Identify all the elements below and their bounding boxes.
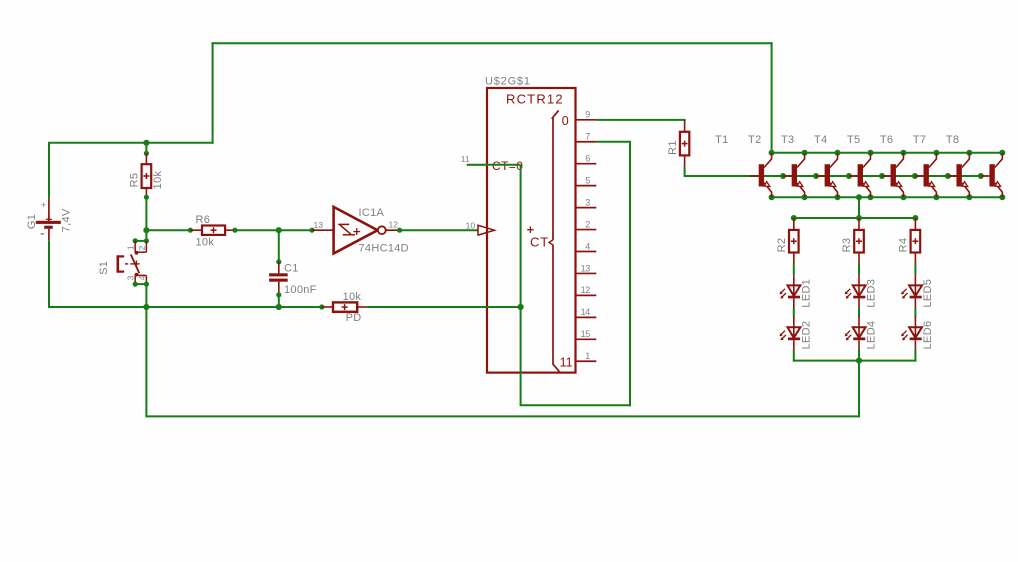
wire R4 to LED5 bbox=[914, 253, 916, 275]
counter reset pin stub bbox=[467, 164, 487, 166]
svg-text:R6: R6 bbox=[196, 214, 211, 226]
resistor PD name PD bbox=[346, 312, 362, 324]
wire collector rail bbox=[772, 152, 1003, 154]
capacitor C1 bbox=[269, 273, 288, 281]
svg-text:4: 4 bbox=[585, 241, 590, 251]
transistor T4 bbox=[849, 153, 871, 198]
svg-text:R2: R2 bbox=[776, 238, 788, 253]
wire PD right stub bbox=[357, 306, 366, 308]
counter bracket label 11 bbox=[560, 356, 573, 370]
counter CT label bbox=[530, 235, 549, 250]
wire pin 9 to R1 bbox=[596, 120, 685, 121]
svg-text:G1: G1 bbox=[26, 214, 38, 229]
resistor R2 name bbox=[776, 238, 788, 253]
wire bottom-left drop bbox=[145, 307, 147, 417]
svg-text:7,4V: 7,4V bbox=[60, 208, 72, 232]
wire inverter output stub bbox=[386, 228, 402, 233]
transistor T5 name bbox=[847, 134, 860, 146]
resistor R4 name bbox=[898, 238, 910, 253]
resistor R3 name bbox=[841, 238, 853, 253]
wire R1 top stub bbox=[684, 120, 686, 132]
LED LED3 name bbox=[866, 279, 878, 308]
svg-text:100nF: 100nF bbox=[284, 284, 317, 296]
resistor R4 bbox=[911, 230, 921, 253]
wire top-right drop to collector rail bbox=[771, 42, 773, 153]
battery G1 plus mark bbox=[41, 200, 47, 211]
transistor T1 name bbox=[715, 134, 728, 146]
svg-text:1: 1 bbox=[125, 245, 135, 250]
junctions collector rail bbox=[769, 150, 1006, 156]
counter reset pin number 11 bbox=[461, 154, 470, 164]
junctions LED feed rail bbox=[791, 215, 919, 221]
junction PD reset net bbox=[518, 304, 524, 310]
counter value RCTR12 bbox=[506, 92, 564, 107]
switch S1 pin number 3 bbox=[125, 275, 135, 280]
wire battery negative to bottom rail bbox=[48, 240, 50, 308]
svg-text:2: 2 bbox=[137, 245, 147, 250]
inverter IC1A name bbox=[359, 207, 385, 219]
svg-text:R1: R1 bbox=[667, 140, 679, 155]
wire R3 to LED3 bbox=[858, 253, 860, 275]
wire LED5 to LED6 bbox=[914, 308, 916, 317]
svg-text:15: 15 bbox=[581, 329, 591, 339]
wire R5 top stub bbox=[144, 143, 149, 164]
inverter IC1A pin number 12 bbox=[389, 220, 399, 230]
wire LED2 to LED return rail bbox=[793, 350, 795, 362]
LED LED5 name bbox=[922, 279, 934, 308]
resistor R4 top stub bbox=[914, 218, 916, 230]
LED LED4 bbox=[845, 316, 866, 350]
wire reset net bottom bbox=[520, 404, 631, 406]
junctions base rail bbox=[780, 173, 984, 179]
counter CT chevron bbox=[549, 239, 554, 245]
LED LED3 bbox=[845, 274, 866, 308]
svg-text:LED2: LED2 bbox=[800, 321, 812, 350]
switch S1 pin number 4 bbox=[137, 275, 147, 280]
LED LED5 bbox=[901, 274, 922, 308]
wire emitter rail to LED feed bbox=[858, 197, 860, 219]
wire R6 to inverter input bbox=[225, 228, 315, 233]
transistor T1 bbox=[750, 153, 772, 198]
resistor R2 top stub bbox=[793, 218, 795, 230]
resistor R6 bbox=[202, 226, 225, 235]
wire PD left stub bbox=[319, 304, 333, 309]
junction C1 tap bbox=[276, 227, 282, 233]
svg-text:11: 11 bbox=[461, 154, 470, 164]
counter U$2G$1 name bbox=[485, 76, 531, 88]
wire LED1 to LED2 bbox=[793, 308, 795, 317]
svg-text:LED5: LED5 bbox=[922, 279, 934, 308]
junction node A bbox=[143, 227, 149, 233]
inverter IC1A hysteresis mark bbox=[338, 224, 355, 234]
svg-text:PD: PD bbox=[346, 312, 362, 324]
switch S1 name bbox=[98, 261, 110, 275]
op-amp IC1A triangle bbox=[334, 207, 378, 254]
resistor R1 name bbox=[667, 140, 679, 155]
counter bracket label 0 bbox=[562, 114, 569, 128]
svg-text:S1: S1 bbox=[98, 261, 110, 275]
svg-text:7: 7 bbox=[585, 132, 590, 142]
transistor T2 bbox=[783, 153, 805, 198]
battery G1 value 7,4V bbox=[60, 208, 72, 232]
svg-text:R4: R4 bbox=[898, 238, 910, 253]
counter clock wedge bbox=[478, 225, 494, 235]
LED LED6 name bbox=[922, 321, 934, 350]
battery G1 plates bbox=[36, 198, 61, 240]
svg-text:C1: C1 bbox=[284, 263, 299, 275]
counter clock pin number 10 bbox=[466, 220, 476, 230]
svg-text:6: 6 bbox=[585, 154, 590, 164]
svg-text:LED6: LED6 bbox=[922, 321, 934, 350]
wire LED6 to LED return rail bbox=[914, 350, 916, 362]
svg-text:10k: 10k bbox=[196, 237, 215, 249]
resistor R6 value 10k bbox=[196, 237, 215, 249]
wire transistor base rail bbox=[750, 175, 981, 177]
svg-text:10k: 10k bbox=[343, 291, 362, 303]
wire emitter rail bbox=[772, 196, 1003, 198]
junctions emitter rail bbox=[769, 194, 1006, 200]
svg-text:5: 5 bbox=[585, 175, 590, 185]
svg-text:0: 0 bbox=[562, 114, 569, 128]
inverter IC1A value 74HC14D bbox=[359, 243, 409, 255]
wire node A to S1 bbox=[145, 230, 147, 241]
LED LED4 name bbox=[866, 321, 878, 350]
svg-text:2: 2 bbox=[585, 219, 590, 229]
wire LED feed rail bbox=[794, 217, 916, 219]
svg-text:74HC14D: 74HC14D bbox=[359, 243, 409, 255]
wire node A to R6 bbox=[146, 228, 202, 233]
svg-text:LED4: LED4 bbox=[866, 321, 878, 350]
switch S1 bottom contacts bbox=[135, 273, 147, 284]
transistor T3 bbox=[816, 153, 838, 198]
battery G1 minus mark bbox=[41, 233, 44, 235]
junction at R5 top node bbox=[143, 140, 149, 146]
svg-text:10: 10 bbox=[466, 220, 476, 230]
svg-text:T8: T8 bbox=[946, 134, 959, 146]
junction LED return bbox=[856, 358, 862, 364]
wire top rail bbox=[212, 42, 773, 44]
wire C1 top bbox=[276, 230, 281, 273]
wire S1 top pins bbox=[133, 238, 149, 243]
inverter IC1A pin number 13 bbox=[314, 220, 324, 230]
svg-text:R5: R5 bbox=[129, 173, 141, 188]
svg-text:IC1A: IC1A bbox=[359, 207, 385, 219]
transistor T5 bbox=[882, 153, 904, 198]
battery G1 name bbox=[26, 214, 38, 229]
counter output pin stubs bbox=[576, 120, 597, 361]
svg-text:CT: CT bbox=[530, 235, 549, 250]
svg-text:4: 4 bbox=[137, 275, 147, 280]
junction S1 on bottom rail bbox=[143, 304, 149, 310]
resistor R1 bbox=[680, 132, 689, 156]
transistor T2 name bbox=[748, 134, 761, 146]
capacitor C1 value 100nF bbox=[284, 284, 317, 296]
transistor T7 bbox=[948, 153, 970, 198]
svg-text:1: 1 bbox=[585, 351, 590, 361]
svg-text:12: 12 bbox=[389, 220, 399, 230]
wire LED4 to LED return rail bbox=[858, 350, 860, 362]
resistor R2 bbox=[789, 230, 799, 253]
wire S1 bottom pins bbox=[133, 282, 149, 287]
LED LED1 name bbox=[800, 279, 812, 308]
wire R5 bottom to node A bbox=[144, 188, 149, 230]
transistor T6 name bbox=[880, 134, 893, 146]
LED LED2 bbox=[780, 316, 801, 350]
svg-text:+: + bbox=[41, 200, 47, 211]
resistor R5 bbox=[142, 164, 152, 188]
junction C1 on bottom rail bbox=[276, 304, 282, 310]
svg-text:T6: T6 bbox=[880, 134, 893, 146]
resistor R5 name bbox=[129, 173, 141, 188]
switch S1 top contacts bbox=[135, 241, 147, 255]
wire bottom rail left bbox=[49, 306, 322, 308]
resistor R3 bbox=[854, 230, 864, 253]
svg-text:T2: T2 bbox=[748, 134, 761, 146]
LED LED1 bbox=[780, 274, 801, 308]
svg-text:T7: T7 bbox=[913, 134, 926, 146]
switch S1 pin number 1 bbox=[125, 245, 135, 250]
inverter IC1A output bubble bbox=[378, 226, 386, 234]
wire top-left riser bbox=[212, 42, 214, 144]
wire battery positive to top-left corner bbox=[48, 143, 214, 198]
wire LED3 to LED4 bbox=[858, 308, 860, 317]
wire S1 to bottom rail bbox=[145, 284, 147, 307]
wire R2 to LED1 bbox=[793, 253, 795, 275]
resistor R3 top stub bbox=[858, 218, 860, 230]
switch S1 actuator bbox=[117, 255, 134, 272]
svg-text:T4: T4 bbox=[814, 134, 827, 146]
wire PD right to reset net bbox=[367, 306, 521, 308]
wire Q2 net to pin 7 bbox=[596, 141, 631, 143]
LED LED2 name bbox=[800, 321, 812, 350]
transistor T8 bbox=[981, 153, 1003, 198]
svg-text:3: 3 bbox=[585, 197, 590, 207]
switch S1 pin number 2 bbox=[137, 245, 147, 250]
wire inverter input stub bbox=[312, 229, 333, 231]
svg-text:LED1: LED1 bbox=[800, 279, 812, 308]
capacitor C1 name bbox=[284, 263, 299, 275]
transistor T6 bbox=[915, 153, 937, 198]
switch S1 lever bbox=[131, 254, 140, 273]
svg-text:12: 12 bbox=[581, 285, 591, 295]
wire LED return rail bbox=[793, 360, 917, 362]
svg-text:T5: T5 bbox=[847, 134, 860, 146]
LED LED6 bbox=[901, 316, 922, 350]
svg-text:13: 13 bbox=[581, 263, 591, 273]
svg-text:T1: T1 bbox=[715, 134, 728, 146]
wire bottom rail bbox=[146, 415, 860, 417]
resistor PD value 10k bbox=[343, 291, 362, 303]
wire reset net from pin 11 bbox=[467, 164, 521, 166]
svg-text:11: 11 bbox=[560, 356, 573, 370]
svg-text:14: 14 bbox=[581, 307, 591, 317]
counter origin cross bbox=[527, 227, 533, 233]
counter output bracket bbox=[552, 110, 560, 371]
resistor R6 name bbox=[196, 214, 211, 226]
svg-text:13: 13 bbox=[314, 220, 324, 230]
transistor T8 name bbox=[946, 134, 959, 146]
wire reset net vertical bbox=[520, 165, 522, 405]
counter output pin numbers bbox=[581, 110, 591, 361]
wire C1 bottom bbox=[276, 282, 281, 307]
wire Q2 net vertical bbox=[629, 142, 631, 407]
transistor T3 name bbox=[781, 134, 794, 146]
svg-text:T3: T3 bbox=[781, 134, 794, 146]
transistor T7 name bbox=[913, 134, 926, 146]
wire inverter output to counter clock bbox=[400, 229, 478, 231]
wire LED return drop bbox=[858, 361, 860, 418]
resistor PD 10k bbox=[333, 302, 357, 311]
svg-text:RCTR12: RCTR12 bbox=[506, 92, 564, 107]
resistor R5 value 10k bbox=[152, 170, 164, 189]
svg-text:LED3: LED3 bbox=[866, 279, 878, 308]
transistor T4 name bbox=[814, 134, 827, 146]
svg-text:3: 3 bbox=[125, 275, 135, 280]
wire R1 bottom to base rail bbox=[685, 155, 751, 177]
svg-text:9: 9 bbox=[585, 110, 590, 120]
svg-text:U$2G$1: U$2G$1 bbox=[485, 76, 531, 88]
counter U$2G$1 box bbox=[487, 88, 576, 373]
svg-text:R3: R3 bbox=[841, 238, 853, 253]
counter CT=0 label bbox=[492, 159, 523, 173]
inverter IC1A origin cross bbox=[353, 228, 360, 235]
svg-text:10k: 10k bbox=[152, 170, 164, 189]
